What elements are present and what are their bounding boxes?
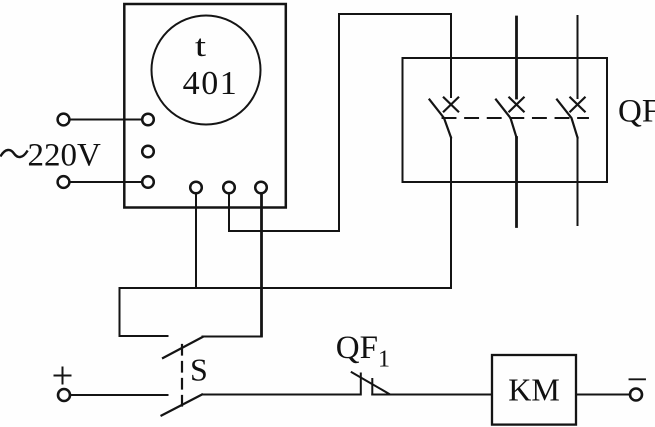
battery terminal circle +	[58, 389, 70, 401]
QF pole1 blade	[430, 100, 452, 138]
wire long horizontal node A	[120, 287, 452, 289]
wire supply L1	[70, 119, 142, 121]
QF pole3 contact x	[570, 98, 584, 112]
switch S upper-pole right arm	[203, 336, 262, 338]
svg-text:KM: KM	[508, 372, 560, 408]
svg-text:QF: QF	[618, 94, 655, 130]
switch S upper blade	[163, 337, 203, 358]
wire supply L2	[70, 181, 142, 183]
terminal circle bottom 3	[255, 182, 267, 194]
wire terminal1 down	[195, 194, 197, 289]
wire terminal2 down	[228, 194, 230, 232]
switch S lower blade	[162, 395, 203, 416]
battery terminal circle -	[630, 389, 642, 401]
QF pole2 contact x	[509, 98, 523, 112]
terminal circle left-in 3	[142, 176, 154, 188]
wire QF1 to KM	[372, 394, 492, 396]
breaker QF box	[403, 58, 608, 182]
QF pole2 top lead (thick)	[515, 17, 518, 98]
terminal circle bottom 2	[223, 182, 235, 194]
wire terminal3 down (thick)	[260, 194, 263, 337]
wire S upper-left riser	[119, 288, 121, 336]
plus terminal mark	[55, 368, 71, 384]
svg-text:220V: 220V	[28, 138, 102, 174]
wire top horizontal	[339, 13, 451, 15]
supply terminal L2	[58, 176, 70, 188]
timer unit box U1 (t 401)	[124, 4, 285, 208]
QF pole3 top lead	[577, 16, 579, 98]
svg-text:401: 401	[183, 65, 239, 102]
contact QF1 right bar	[371, 379, 373, 395]
terminal circle left-in 2	[142, 146, 154, 158]
wire + to S	[71, 394, 168, 396]
QF pole2 blade	[496, 100, 517, 138]
QF pole3 blade	[557, 100, 578, 138]
wire S to QF1	[202, 394, 361, 396]
svg-text:t: t	[195, 28, 206, 62]
QF pole2 bottom lead (thick)	[515, 138, 518, 227]
terminal circle bottom 1	[190, 182, 202, 194]
QF pole3 bottom lead	[577, 138, 579, 226]
wire QF pole1 bottom lead	[450, 138, 452, 289]
label ~220V tilde	[1, 150, 27, 157]
timer dial circle	[152, 16, 261, 125]
wire t2 horizontal	[229, 230, 339, 232]
minus terminal mark	[630, 378, 646, 380]
switch S link (dashed)	[181, 345, 183, 406]
QF mechanical link (dashed)	[443, 117, 589, 119]
supply terminal L1	[58, 114, 70, 126]
svg-text:S: S	[190, 352, 208, 388]
terminal circle left-in 1	[142, 114, 154, 126]
wire QF pole1 top lead	[450, 14, 452, 97]
switch S upper-pole left arm	[120, 335, 168, 337]
contactor coil KM box	[492, 355, 576, 425]
contact QF1 left bar	[360, 374, 362, 395]
QF pole1 contact x	[444, 98, 458, 112]
wire KM to minus terminal	[576, 394, 630, 396]
wire riser x339	[338, 14, 340, 231]
svg-text:QF1: QF1	[336, 330, 390, 373]
contact QF1 blade	[352, 372, 390, 394]
